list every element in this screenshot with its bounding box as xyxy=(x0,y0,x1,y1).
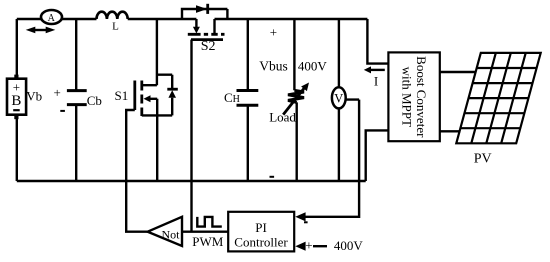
svg-text:L: L xyxy=(112,21,119,33)
svg-text:V: V xyxy=(334,91,343,105)
svg-text:Boost Conveter: Boost Conveter xyxy=(414,56,429,138)
svg-text:+: + xyxy=(305,237,312,252)
svg-text:with MPPT: with MPPT xyxy=(399,67,414,127)
svg-text:S1: S1 xyxy=(115,88,129,103)
svg-text:400V: 400V xyxy=(334,238,364,253)
svg-text:A: A xyxy=(48,13,56,24)
svg-text:400V: 400V xyxy=(298,59,328,74)
svg-text:PWM: PWM xyxy=(192,234,224,249)
svg-text:PI: PI xyxy=(255,220,267,235)
svg-text:Not: Not xyxy=(162,228,181,242)
svg-text:+: + xyxy=(270,25,277,40)
svg-text:Vbus: Vbus xyxy=(259,59,288,74)
svg-text:PV: PV xyxy=(474,151,492,166)
svg-text:B: B xyxy=(11,93,21,109)
svg-text:Controller: Controller xyxy=(234,234,288,249)
svg-text:Cb: Cb xyxy=(87,93,102,108)
svg-text:Load: Load xyxy=(269,110,296,125)
svg-text:Vb: Vb xyxy=(26,89,42,104)
svg-text:S2: S2 xyxy=(201,39,216,54)
svg-text:I: I xyxy=(374,74,378,89)
svg-text:+: + xyxy=(54,85,61,100)
